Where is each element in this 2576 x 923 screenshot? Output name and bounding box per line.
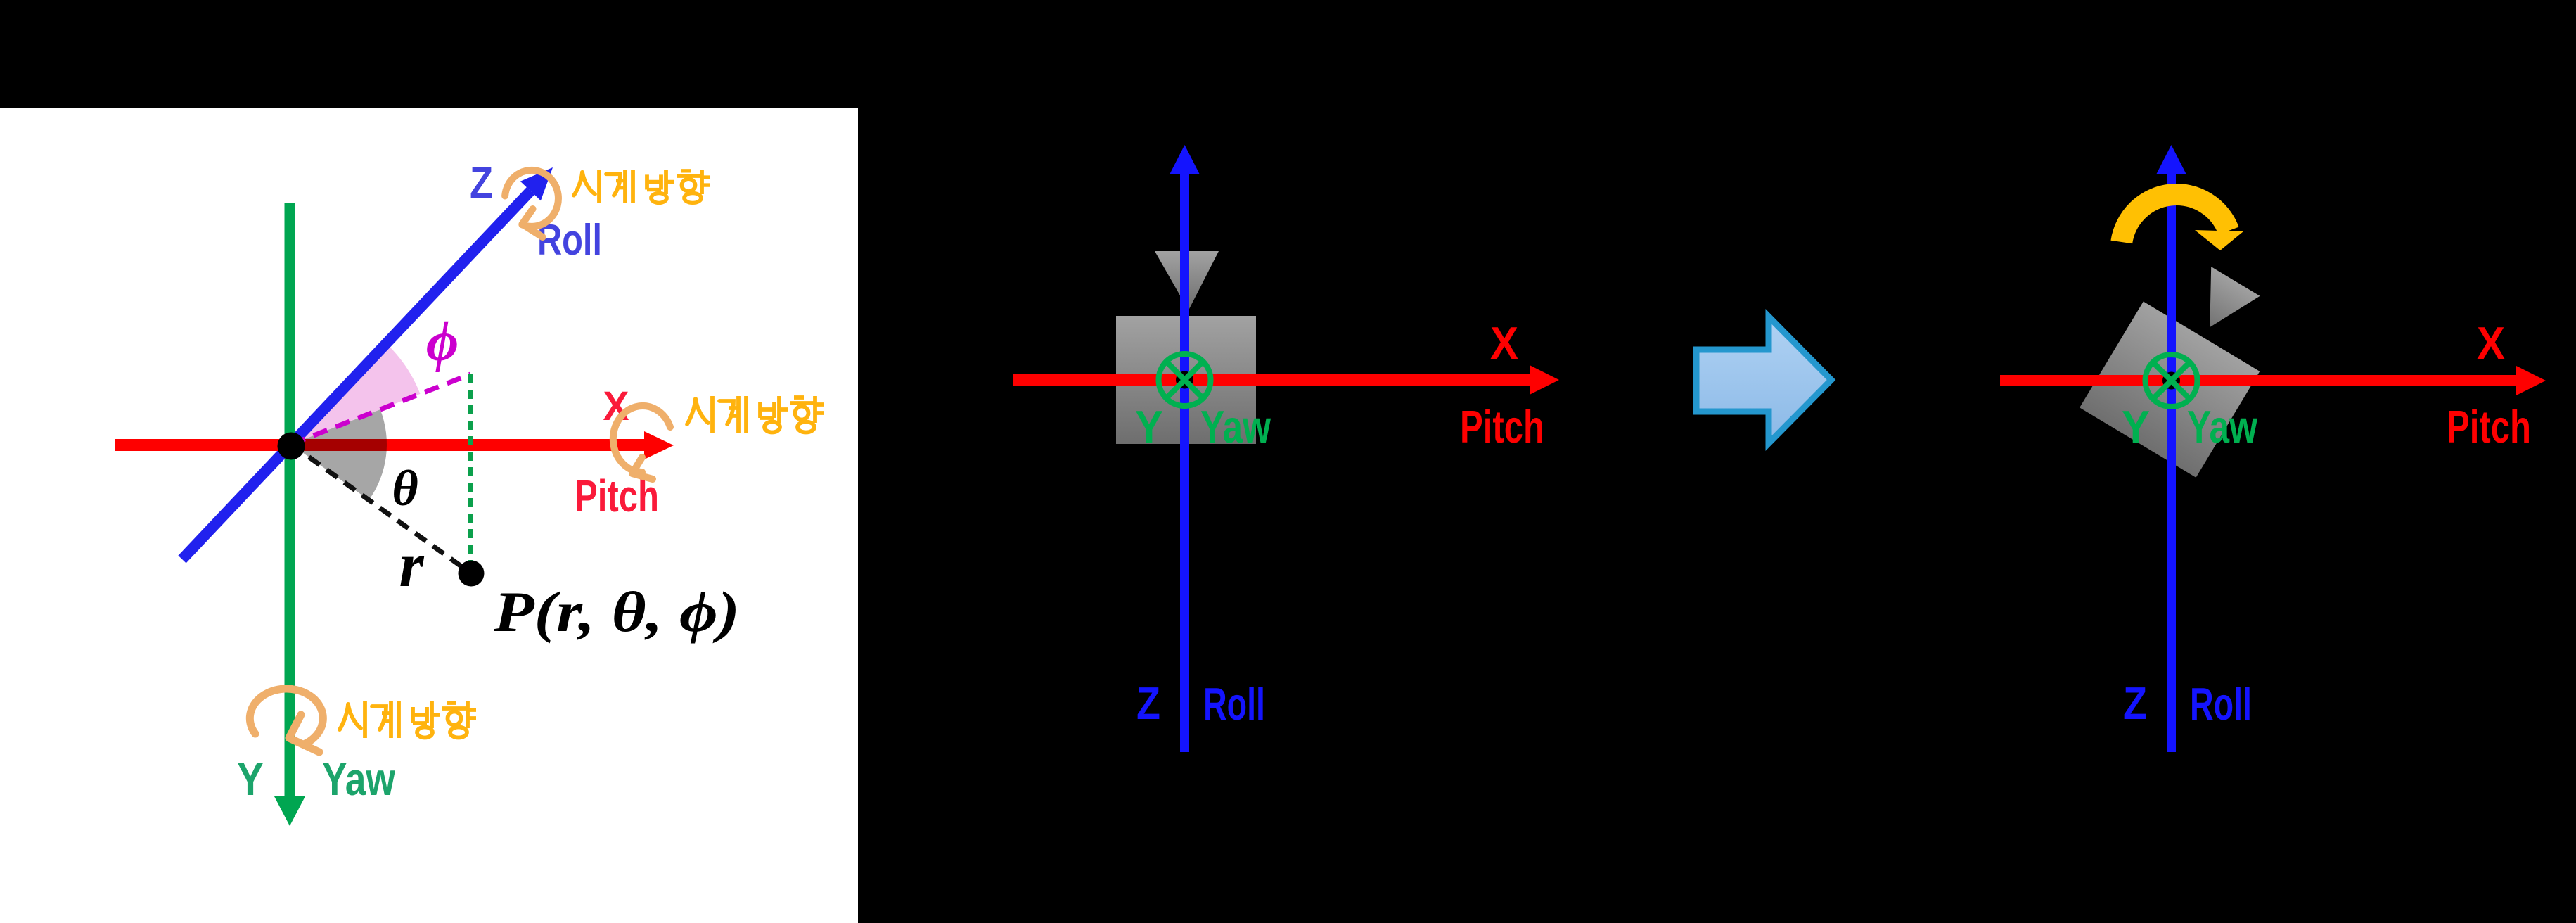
origin black dot: [2162, 372, 2180, 390]
svg-text:P(r, θ, ϕ): P(r, θ, ϕ): [493, 580, 740, 644]
svg-text:Roll: Roll: [1203, 678, 1265, 730]
origin black dot: [1176, 371, 1193, 389]
X axis red horizontal: [2000, 375, 2516, 386]
Y axis symbol (green circle-cross): [1159, 354, 1211, 406]
svg-text:r: r: [399, 530, 424, 600]
rotation curl at X tip: [613, 406, 670, 479]
svg-text:Pitch: Pitch: [2447, 401, 2531, 452]
X axis red horizontal: [1013, 374, 1530, 386]
theta wedge (gray translucent): [291, 409, 387, 500]
svg-text:X: X: [2477, 317, 2505, 369]
svg-text:θ: θ: [392, 460, 418, 516]
white panel: [0, 108, 858, 923]
rotation curl at Z tip: [505, 170, 558, 237]
Z axis (blue diagonal): [182, 191, 530, 559]
svg-text:Z: Z: [2123, 677, 2147, 729]
svg-text:Y: Y: [2122, 401, 2150, 452]
Y axis (green, downward): [285, 203, 295, 798]
Z axis blue vertical: [1180, 174, 1189, 752]
korean text near Yaw: [340, 701, 476, 738]
korean text near Z: [574, 170, 710, 203]
phi wedge (pink): [291, 343, 421, 444]
X axis (red): [115, 439, 644, 451]
svg-text:Z: Z: [1136, 677, 1160, 729]
Y axis symbol (green circle-cross): [2146, 355, 2198, 407]
yellow yaw rotation arc: [2122, 195, 2229, 242]
svg-text:Pitch: Pitch: [1460, 401, 1544, 452]
r dashed line (black): [291, 445, 471, 574]
camera body: [1116, 251, 1256, 444]
origin dot: [278, 433, 305, 460]
phi dashed line (magenta): [291, 374, 470, 445]
rotation curl at Y bottom: [250, 689, 323, 752]
svg-text:Roll: Roll: [2190, 678, 2252, 730]
svg-text:X: X: [1490, 317, 1518, 369]
camera body rotated with shadow: [2075, 243, 2299, 485]
vertical dashed line (green): [468, 374, 473, 570]
point P dot: [459, 561, 485, 587]
svg-text:Y: Y: [1135, 401, 1163, 452]
svg-text:ϕ: ϕ: [426, 311, 459, 373]
svg-text:Y: Y: [237, 753, 264, 805]
svg-text:Yaw: Yaw: [1200, 401, 1271, 452]
svg-text:Z: Z: [470, 159, 493, 208]
Z axis blue vertical: [2167, 174, 2176, 752]
svg-text:Yaw: Yaw: [322, 753, 396, 805]
korean text near X: [687, 396, 824, 433]
svg-text:Yaw: Yaw: [2187, 401, 2257, 452]
